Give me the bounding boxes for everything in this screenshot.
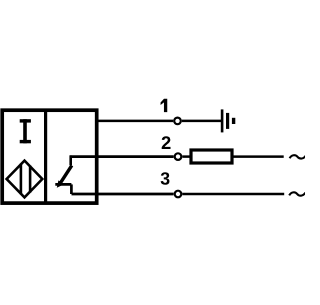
inductive sensing face symbol (rhombus) — [7, 161, 43, 198]
sensor body divider — [44, 110, 47, 204]
AC source tilde for wire 3 — [289, 192, 305, 195]
switch contact: lever arrowhead — [57, 180, 64, 187]
wire 2 (box/switch to terminal 2) — [70, 155, 174, 158]
wire 2 (resistor to AC source) — [233, 155, 283, 158]
pin label 3 — [161, 172, 170, 185]
terminal circle 2 — [175, 153, 182, 160]
pin label 2 — [162, 136, 171, 149]
wire 1 (box to terminal 1) — [95, 120, 173, 123]
switch contact: movable lever — [60, 165, 72, 184]
wire 2 (terminal 2 to resistor) — [182, 155, 189, 158]
wire 3 (box/switch to terminal 3) — [72, 193, 174, 196]
pin label 1 — [161, 99, 168, 112]
switch contact: pivot bar — [55, 183, 71, 186]
resistor (load) — [191, 150, 232, 163]
sensor body outline — [2, 110, 97, 203]
switch contact: fixed terminal stub — [69, 155, 72, 165]
wire 1 (terminal 1 to ground) — [182, 120, 221, 123]
label I (inductive) — [20, 119, 31, 143]
AC source tilde for wire 2 — [290, 155, 306, 158]
ground bar 1 — [221, 109, 224, 132]
switch contact: pivot drop wire — [70, 184, 73, 194]
terminal circle 1 — [174, 118, 181, 125]
terminal circle 3 — [175, 191, 182, 198]
rhombus inner line left — [20, 164, 23, 195]
rhombus inner line right — [29, 166, 32, 193]
ground bar 2 — [226, 113, 229, 129]
wire 3 (terminal 3 to AC source) — [182, 193, 284, 196]
ground bar 3 — [232, 118, 235, 124]
